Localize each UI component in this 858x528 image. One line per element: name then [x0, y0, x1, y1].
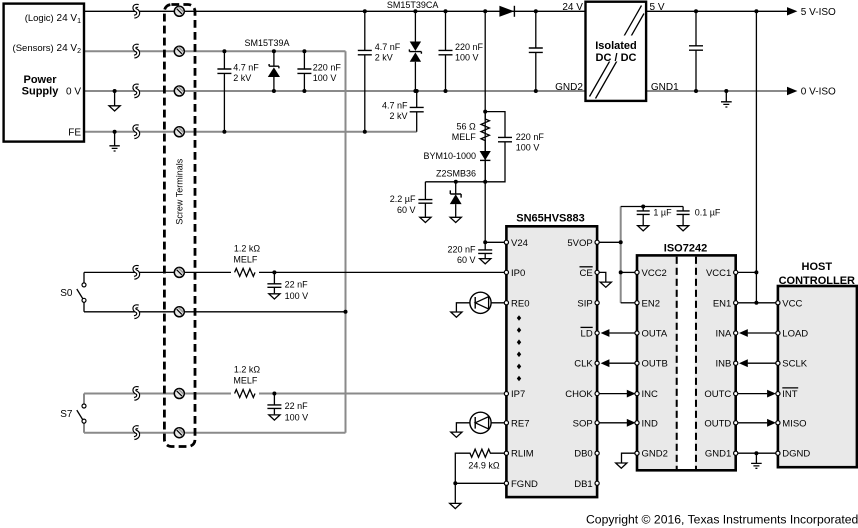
isolated DC/DC converter box	[586, 2, 647, 101]
capacitor (24V to GND2 at DC/DC input)	[529, 11, 543, 91]
wire 0V-ISO / GND1 from DC/DC to arrow	[646, 90, 787, 92]
arrow 0V-ISO output	[787, 87, 797, 95]
wire LOAD to INA	[748, 332, 776, 334]
junction node (485.2,11.3)	[483, 9, 487, 13]
svg-text:2.2 µF: 2.2 µF	[390, 194, 416, 204]
svg-text:22 nF: 22 nF	[285, 401, 309, 411]
diode BYM10-1000	[480, 151, 491, 182]
junction node (696,91)	[694, 89, 698, 93]
wire 5V output from DC/DC to arrow	[646, 10, 787, 12]
resistor 1.2k MELF (IP0)	[231, 266, 259, 278]
pin CHOK	[595, 392, 599, 396]
svg-text:24 V: 24 V	[562, 2, 583, 13]
wire OUTC to INT	[738, 393, 768, 395]
wire 5V-ISO vertical rail down to VCC1/EN1	[755, 11, 757, 303]
svg-text:100 V: 100 V	[516, 143, 540, 153]
junction node (445.5,11.3)	[444, 9, 448, 13]
wire S7 contact stubs	[83, 394, 85, 433]
svg-text:EN2: EN2	[642, 298, 660, 309]
svg-text:VCC: VCC	[782, 298, 802, 309]
svg-text:BYM10-1000: BYM10-1000	[423, 151, 476, 161]
node 0V ground junction	[113, 89, 117, 93]
svg-text:EN1: EN1	[713, 298, 731, 309]
svg-text:MELF: MELF	[233, 376, 258, 386]
wire FE horizontal from power supply to Y-cap corner	[84, 131, 417, 133]
svg-text:SIP: SIP	[577, 298, 592, 309]
node EN1 rail junction	[754, 301, 758, 305]
IC HOST CONTROLLER box	[778, 286, 857, 467]
wire CHOK to INC	[599, 393, 627, 395]
ground RE0	[451, 312, 462, 317]
svg-text:IP7: IP7	[511, 389, 525, 400]
capacitor 5V to 0V-ISO	[689, 11, 703, 91]
capacitor 220nF 100V (V24 snubber)	[498, 137, 512, 141]
ground 220nF 60V	[480, 259, 491, 264]
wire S7 bottom return to 24V2 rail	[84, 432, 346, 434]
svg-text:OUTB: OUTB	[642, 359, 668, 370]
junction node (224.4,131.8)	[222, 130, 226, 134]
junction node (415.4,91)	[413, 89, 417, 93]
wire OUTB to CLK with arrow	[609, 362, 635, 364]
wire break FE	[134, 126, 138, 137]
svg-text:4.7 nF: 4.7 nF	[233, 63, 259, 73]
pin OUTC	[734, 392, 738, 396]
junction node (304.4,91)	[302, 89, 306, 93]
node 5V-ISO rail junction	[754, 9, 758, 13]
wire 5VOP pin to rail	[599, 241, 621, 243]
ground 0.1uF	[678, 226, 689, 231]
pin EN1	[734, 301, 738, 305]
pin DGND	[776, 451, 780, 455]
pin IP0	[504, 270, 508, 274]
svg-text:220 nF: 220 nF	[447, 244, 476, 254]
op-amp? no: IC SN65HVS883 box	[506, 226, 597, 497]
pin INA	[734, 331, 738, 335]
pin IP7	[504, 392, 508, 396]
pin CE (active low)	[595, 270, 599, 274]
capacitor 4.7nF 2kV (24V2 to FE)	[217, 51, 231, 132]
svg-text:Isolated: Isolated	[595, 40, 637, 52]
zener diode Z2SMB36	[450, 182, 462, 217]
pin GND2 (ISO7242)	[635, 451, 639, 455]
ground Z2SMB36	[450, 217, 461, 222]
svg-text:DB0: DB0	[574, 449, 592, 460]
wire V24 vertical rail from 24V1 down to V24 pin	[485, 11, 504, 242]
wire break S7 return	[134, 427, 138, 438]
svg-text:CE: CE	[579, 268, 592, 279]
svg-text:LD: LD	[581, 329, 593, 340]
svg-text:5 V-ISO: 5 V-ISO	[801, 7, 836, 18]
svg-text:Copyright © 2016, Texas Instru: Copyright © 2016, Texas Instruments Inco…	[586, 513, 858, 527]
pin VCC (host)	[776, 301, 780, 305]
svg-text:HOST: HOST	[802, 261, 833, 273]
svg-text:IND: IND	[642, 418, 659, 429]
wire IP7 from switch S7 to SN65HVS883 IP7 pin	[84, 393, 504, 395]
svg-text:22 nF: 22 nF	[285, 280, 309, 290]
pin OUTA	[635, 331, 639, 335]
pin RE7	[504, 421, 508, 425]
pin LOAD	[776, 331, 780, 335]
resistor 24.9k RLIM	[455, 449, 504, 483]
svg-text:VCC2: VCC2	[642, 268, 667, 279]
capacitor 1uF bypass	[637, 207, 650, 226]
ground GND1/DGND (earth)	[751, 453, 762, 468]
svg-text:INB: INB	[715, 359, 731, 370]
arrow into INC pin	[627, 390, 636, 398]
svg-text:GND1: GND1	[651, 82, 679, 93]
junction node (304.4,51.2)	[302, 49, 306, 53]
capacitor 22nF 100V (IP0)	[267, 272, 281, 293]
power supply box	[4, 4, 84, 142]
svg-text:(Logic) 24 V1: (Logic) 24 V1	[25, 13, 81, 25]
wire break 24V1	[134, 6, 138, 17]
TVS diode SM15T39CA (24V1 to 0V, bidirectional)	[409, 11, 421, 91]
pin CLK	[595, 361, 599, 365]
arrow into INT pin	[767, 390, 776, 398]
pin SCLK	[776, 361, 780, 365]
wire 24V2 vertical rail down to switch returns	[345, 51, 347, 433]
svg-text:2 kV: 2 kV	[375, 53, 393, 63]
screw terminals dashed enclosure	[164, 5, 195, 447]
svg-text:S0: S0	[60, 288, 73, 299]
svg-text:0 V: 0 V	[66, 87, 81, 98]
svg-text:MELF: MELF	[452, 132, 477, 142]
svg-text:100 V: 100 V	[455, 53, 479, 63]
capacitor 4.7nF 2kV (24V1 to FE)	[358, 11, 372, 132]
svg-text:OUTD: OUTD	[704, 418, 731, 429]
junction node (696,11.3)	[694, 9, 698, 13]
wire 24V2 horizontal from power supply to rail corner	[84, 50, 346, 52]
svg-text:RE0: RE0	[511, 298, 529, 309]
svg-text:IP0: IP0	[511, 268, 525, 279]
pin EN2	[635, 301, 639, 305]
svg-text:GND2: GND2	[642, 449, 668, 460]
svg-text:0.1 µF: 0.1 µF	[695, 207, 721, 217]
junction node (485.2,181.8)	[483, 180, 487, 184]
node V24 pin junction	[483, 240, 487, 244]
wire EN1 pin to HOST VCC pin	[738, 302, 776, 304]
svg-text:FE: FE	[68, 127, 81, 138]
arrow into INB pin	[739, 359, 748, 367]
junction node (416.7,91)	[415, 89, 419, 93]
pin INB	[734, 361, 738, 365]
capacitor 0.1uF bypass	[677, 207, 690, 226]
svg-text:4.7 nF: 4.7 nF	[382, 101, 408, 111]
svg-text:220 nF: 220 nF	[516, 132, 545, 142]
pin VCC2	[635, 270, 639, 274]
svg-text:INA: INA	[715, 329, 732, 340]
svg-text:SN65HVS883: SN65HVS883	[516, 213, 585, 225]
resistor 1.2k MELF (IP7)	[231, 387, 259, 399]
pin INT (active low)	[776, 392, 780, 396]
svg-text:CLK: CLK	[574, 359, 593, 370]
svg-text:220 nF: 220 nF	[313, 63, 342, 73]
arrow 5V-ISO output	[787, 7, 797, 15]
wire FGND to ground	[455, 483, 504, 503]
wire S0 bottom return to 24V2 rail	[84, 311, 346, 313]
svg-text:100 V: 100 V	[285, 291, 309, 301]
svg-text:RE7: RE7	[511, 418, 529, 429]
svg-text:V24: V24	[511, 238, 528, 249]
isolation barrier dashed lines	[677, 257, 696, 469]
junction node (364.8,131.8)	[363, 130, 367, 134]
junction node (273.9,51.2)	[272, 49, 276, 53]
ground 0V-ISO (earth)	[724, 89, 728, 93]
ground 2.2uF	[420, 217, 431, 222]
pin OUTB	[635, 361, 639, 365]
svg-text:ISO7242: ISO7242	[664, 243, 707, 255]
svg-text:S7: S7	[60, 409, 73, 420]
isolation barrier white strip	[678, 257, 695, 469]
svg-text:RLIM: RLIM	[511, 449, 534, 460]
node GND1/DGND ground junction	[754, 451, 758, 455]
svg-text:MELF: MELF	[233, 254, 258, 264]
svg-text:5 V: 5 V	[650, 2, 665, 13]
svg-text:Supply: Supply	[22, 86, 60, 98]
wire CE pin to ground	[599, 272, 606, 281]
capacitor 220nF 100V (24V1 to 0V)	[439, 11, 453, 91]
node RLIM/FGND junction	[453, 481, 457, 485]
wire ISO GND2 to ground	[622, 453, 636, 462]
junction node (415.4,11.3)	[413, 9, 417, 13]
diode series on 24V1	[499, 6, 514, 17]
pin DB1	[595, 481, 599, 485]
junction node (445.5,91)	[444, 89, 448, 93]
pin DB0	[595, 451, 599, 455]
capacitor 4.7nF 2kV (0V to FE)	[410, 91, 424, 132]
wire SCLK to INB	[748, 362, 776, 364]
ellipsis diamonds IP1..IP6	[517, 315, 521, 381]
node VCC1 rail junction	[754, 270, 758, 274]
pin SOP	[595, 421, 599, 425]
svg-text:Screw Terminals: Screw Terminals	[175, 158, 185, 224]
pin SIP	[595, 301, 599, 305]
pin FGND	[504, 481, 508, 485]
svg-text:SM15T39CA: SM15T39CA	[387, 0, 439, 10]
pin IND	[635, 421, 639, 425]
wire break IP0	[134, 267, 138, 278]
LED indicator RE7	[456, 412, 504, 433]
svg-text:CHOK: CHOK	[565, 389, 593, 400]
svg-text:60 V: 60 V	[457, 255, 476, 265]
ground 0V (signal ground arrow)	[114, 91, 116, 106]
LED indicator RE0	[456, 292, 504, 313]
wire break S0 return	[134, 306, 138, 317]
screw terminal S7 return	[174, 428, 184, 438]
screw terminal FE	[174, 127, 184, 137]
svg-text:INT: INT	[782, 389, 798, 400]
wire SOP to IND	[599, 422, 627, 424]
wire break 0V	[134, 86, 138, 97]
junction node (485.2,111.6)	[483, 110, 487, 114]
junction node (455.8,181.8)	[454, 180, 458, 184]
junction node (364.8,11.3)	[363, 9, 367, 13]
wire 24V1 horizontal from power supply to DC/DC 24V pin	[84, 10, 586, 12]
svg-text:MISO: MISO	[782, 418, 806, 429]
capacitor 220nF 60V at V24 pin	[478, 242, 492, 258]
arrow into MISO pin	[767, 419, 776, 427]
screw terminal S0 return	[174, 307, 184, 317]
capacitor 2.2uF 60V	[418, 182, 432, 217]
node VCC2 rail junction	[619, 270, 623, 274]
ground 1uF	[638, 226, 649, 231]
node IP0 filter junction	[272, 270, 276, 274]
pin RE0	[504, 301, 508, 305]
wire VCC2 pin to rail	[621, 271, 635, 273]
svg-text:VCC1: VCC1	[706, 268, 731, 279]
pin GND1 (ISO7242)	[734, 451, 738, 455]
svg-text:1 µF: 1 µF	[653, 207, 672, 217]
pin INC	[635, 392, 639, 396]
node IP7 filter junction	[272, 392, 276, 396]
svg-text:OUTC: OUTC	[704, 389, 731, 400]
wire VCC1 pin to 5V-ISO rail	[738, 271, 757, 273]
isolation diagonals inside DC/DC	[590, 6, 645, 99]
wire 5VOP vertical rail to EN2/VCC2	[620, 207, 622, 303]
IC ISO7242 box	[637, 255, 736, 470]
svg-text:SOP: SOP	[573, 418, 593, 429]
svg-text:60 V: 60 V	[397, 205, 416, 215]
svg-text:(Sensors) 24 V2: (Sensors) 24 V2	[13, 43, 82, 55]
svg-text:FGND: FGND	[511, 479, 538, 490]
svg-text:CONTROLLER: CONTROLLER	[779, 275, 855, 287]
wire break IP7	[134, 388, 138, 399]
svg-text:DC / DC: DC / DC	[596, 52, 637, 64]
screw terminal 24V1	[174, 6, 184, 16]
arrow into INA pin	[739, 329, 748, 337]
wire IP0 from switch S0 to SN65HVS883 IP0 pin	[84, 271, 504, 273]
pin VCC1	[734, 270, 738, 274]
pin V24	[504, 240, 508, 244]
wire EN2 pin to rail	[621, 302, 635, 304]
svg-text:4.7 nF: 4.7 nF	[375, 42, 401, 52]
ground 22nF (IP0)	[269, 294, 280, 299]
screw terminal IP7	[174, 389, 184, 399]
TVS diode SM15T39A (24V2 to 0V)	[268, 51, 280, 91]
node FE ground junction	[113, 130, 117, 134]
junction node (273.9,91)	[272, 89, 276, 93]
svg-text:DGND: DGND	[782, 449, 810, 460]
screw terminal IP0	[174, 267, 184, 277]
wire S0 contact stubs	[83, 272, 85, 311]
svg-text:Power: Power	[23, 74, 57, 86]
svg-text:SM15T39A: SM15T39A	[244, 38, 289, 48]
capacitor 220nF 100V (24V2 to 0V)	[297, 51, 311, 91]
svg-text:1.2 kΩ: 1.2 kΩ	[234, 365, 261, 375]
svg-text:2 kV: 2 kV	[233, 73, 251, 83]
svg-text:LOAD: LOAD	[782, 329, 808, 340]
svg-text:100 V: 100 V	[285, 412, 309, 422]
svg-text:0 V-ISO: 0 V-ISO	[801, 87, 836, 98]
arrow into IND pin	[627, 419, 636, 427]
arrow into LD pin	[601, 329, 610, 337]
svg-text:1.2 kΩ: 1.2 kΩ	[234, 243, 261, 253]
ground ISO7242 GND2	[616, 463, 627, 468]
wire OUTA to LD with arrow	[609, 332, 635, 334]
wire bypass caps 1uF/0.1uF top rail	[621, 206, 683, 208]
svg-text:24.9 kΩ: 24.9 kΩ	[468, 460, 500, 470]
junction node (643.2,206.5)	[641, 205, 645, 209]
pin LD (active low)	[595, 331, 599, 335]
wire Z2SMB36 / 2.2uF node horizontal	[425, 181, 485, 183]
svg-text:DB1: DB1	[574, 479, 592, 490]
wire OUTD to MISO	[738, 422, 768, 424]
svg-text:Z2SMB36: Z2SMB36	[436, 168, 476, 178]
screw terminal 24V2	[174, 46, 184, 56]
svg-text:OUTA: OUTA	[642, 329, 668, 340]
pin MISO	[776, 421, 780, 425]
resistor 56 Ohm MELF on V24 rail	[481, 112, 489, 151]
junction node (224.4,51.2)	[222, 49, 226, 53]
ground 22nF (IP7)	[269, 415, 280, 420]
pin OUTD	[734, 421, 738, 425]
node 5VOP rail junction	[619, 240, 623, 244]
pin 5VOP	[595, 240, 599, 244]
ground FGND	[450, 503, 461, 508]
switch S0	[77, 283, 86, 302]
capacitor 22nF 100V (IP7)	[267, 394, 281, 415]
switch S7	[77, 404, 86, 423]
wire break 24V2	[134, 46, 138, 57]
junction node (535.8,11.3)	[534, 9, 538, 13]
svg-text:56 Ω: 56 Ω	[457, 122, 477, 132]
svg-text:GND2: GND2	[555, 82, 583, 93]
svg-text:220 nF: 220 nF	[455, 42, 484, 52]
wire 0V / GND2 horizontal from power supply to DC/DC	[84, 90, 586, 92]
svg-text:5VOP: 5VOP	[567, 238, 592, 249]
wire GND1 to DGND	[738, 452, 776, 454]
svg-text:INC: INC	[642, 389, 659, 400]
screw terminal 0V	[174, 86, 184, 96]
ground RE7	[451, 432, 462, 437]
node S0 return junction on 24V2 rail	[344, 310, 348, 314]
svg-text:100 V: 100 V	[313, 73, 337, 83]
junction node (535.8,91)	[534, 89, 538, 93]
ground CE	[600, 282, 611, 287]
pin RLIM	[504, 451, 508, 455]
ground FE (earth)	[109, 132, 119, 151]
svg-text:2 kV: 2 kV	[389, 111, 407, 121]
svg-text:GND1: GND1	[705, 449, 731, 460]
wire branch to 220nF 100V snubber cap	[485, 112, 505, 182]
svg-text:SCLK: SCLK	[782, 359, 807, 370]
arrow into CLK pin	[601, 359, 610, 367]
